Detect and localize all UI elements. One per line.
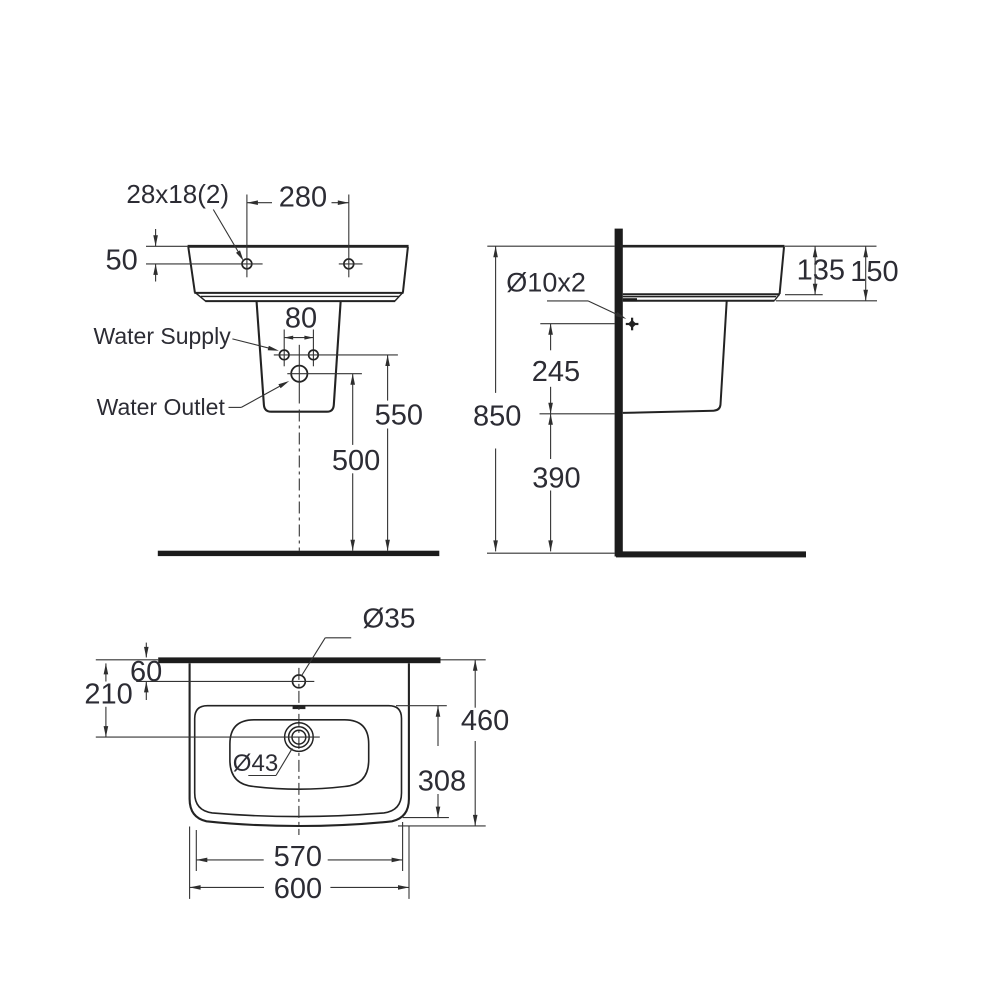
dimension 280 line right segment with arrow [332, 202, 349, 204]
dimension 600 right extension line [408, 827, 410, 899]
dimension 135 line with arrows [814, 246, 816, 295]
water outlet horizontal line / 500 extension [287, 373, 362, 375]
front view: rim lip left connector [196, 293, 206, 301]
dimension 135 bottom extension line [785, 294, 823, 296]
svg-text:570: 570 [274, 841, 322, 873]
dimension 60 upper arrow [145, 643, 147, 658]
plan view: bowl outline [230, 720, 369, 789]
plan view: vertical centerline dash-dot [298, 668, 300, 835]
dimension 135/150 top extension line [784, 245, 876, 247]
dimension 500 line upper segment with arrow [352, 374, 354, 445]
side view: basin top edge [620, 245, 784, 248]
svg-text:245: 245 [532, 356, 580, 388]
dimension 80 left extension line [283, 330, 285, 367]
dimension 280 left extension line [246, 195, 248, 278]
label Ø35 leader line [325, 637, 351, 639]
dimension 500 line lower segment with arrow [352, 473, 354, 550]
front view: vertical centerline dash-dot to floor [298, 410, 300, 551]
front view: basin top edge [188, 245, 409, 248]
front view: rim lip upper line [201, 295, 399, 297]
label Ø43 leader line [248, 775, 276, 777]
svg-text:460: 460 [461, 705, 509, 737]
dimension 280 line left segment with arrow [247, 202, 272, 204]
svg-text:210: 210 [84, 678, 132, 710]
side view: rim lip lower line [623, 300, 775, 302]
dimension 80 right extension line [312, 330, 314, 367]
svg-text:390: 390 [532, 463, 580, 495]
dimension 280 right extension line [348, 195, 350, 278]
front view: basin left side [188, 247, 195, 293]
dimension 570 line left segment with arrow [196, 859, 263, 861]
dimension 60 lower arrow [145, 681, 147, 700]
plan view: faucet hole horizontal centerline / 60 extension [136, 680, 314, 682]
side view: wall thick bar [615, 229, 623, 557]
dimension 210 line lower segment with arrow [105, 707, 107, 737]
dimension 550 line upper segment with arrow [387, 355, 389, 401]
water outlet hole [291, 366, 307, 382]
water supply hole left [279, 350, 289, 360]
dimension 308 line upper segment with arrow [437, 706, 439, 746]
front view: semi-pedestal outline [257, 302, 341, 412]
dimension 570 line right segment with arrow [328, 859, 403, 861]
dimension 550 line lower segment with arrow [387, 429, 389, 551]
svg-text:500: 500 [332, 445, 380, 477]
label Ø10x2 leader line [547, 300, 588, 302]
front view: rim lip right connector [395, 293, 402, 301]
dimension 850 top extension line [487, 245, 614, 247]
dimension 570 left extension line [195, 830, 197, 871]
front view: basin bottom edge [194, 292, 403, 294]
front view: vertical centerline solid part [298, 345, 300, 404]
front view: right faucet hole [344, 259, 354, 269]
water supply holes horizontal line / 550 extension [274, 354, 398, 356]
plan view: drain outer circle [285, 723, 314, 752]
dimension 460 line lower segment with arrow [474, 741, 476, 826]
dimension 460 line upper segment with arrow [474, 660, 476, 708]
dimension 308 line lower segment with arrow [437, 794, 439, 818]
svg-text:308: 308 [418, 766, 466, 798]
svg-text:600: 600 [274, 873, 322, 905]
dimension 245 line upper segment with arrow [550, 324, 552, 351]
plan view: drain horizontal centerline / 210 extension [96, 736, 320, 738]
dimension 50 upper extension line [146, 245, 189, 247]
svg-text:Ø43: Ø43 [233, 750, 278, 777]
side view: rim lip dark segment at wall [623, 298, 637, 301]
dimension 308 bottom extension line [403, 817, 449, 819]
dimension 600 line right segment with arrow [330, 886, 409, 888]
label Water Supply leader line [232, 339, 275, 350]
plan view: wall thin line left [96, 659, 158, 661]
pedestal bottom extension line [540, 413, 615, 415]
plan view: faucet hole circle [293, 675, 306, 688]
front view: rim lip lower line [205, 300, 395, 302]
svg-text:850: 850 [473, 401, 521, 433]
dimension 600 left extension line [189, 827, 191, 899]
front view: left faucet hole [242, 259, 252, 269]
dimension 600 line left segment with arrow [190, 886, 264, 888]
plan view: wall thin line right / 460 top extension [441, 659, 486, 661]
dimension 850 line upper segment with arrow [495, 246, 497, 393]
plan view: overflow slot mark [293, 707, 306, 710]
plan view: basin inner rim outline [195, 706, 402, 817]
plan view: drain middle circle [289, 727, 310, 748]
svg-text:28x18(2): 28x18(2) [126, 179, 229, 209]
svg-text:280: 280 [279, 182, 327, 214]
svg-text:135: 135 [797, 254, 845, 286]
dimension 50 lower arrow [155, 264, 157, 282]
plan view: drain inner circle [292, 730, 306, 744]
dimension 390 line upper segment with arrow [550, 414, 552, 459]
dimension 210 line upper segment with arrow [105, 663, 107, 681]
side view: floor thick bar [616, 551, 806, 557]
side view: semi-pedestal profile [623, 301, 727, 413]
svg-text:Water Outlet: Water Outlet [97, 394, 226, 420]
side view: basin bottom edge [623, 293, 780, 295]
svg-text:80: 80 [285, 303, 317, 335]
dimension 80 line with arrows [284, 337, 313, 339]
dimension 570 right extension line [402, 822, 404, 871]
plan view: basin outer outline [190, 663, 409, 826]
svg-text:Water Supply: Water Supply [94, 323, 232, 349]
svg-text:Ø10x2: Ø10x2 [506, 268, 586, 298]
water supply hole right [309, 350, 319, 360]
dimension 50 lower extension line through left hole [146, 263, 263, 265]
front view: basin right side [403, 247, 408, 293]
dimension 50 upper arrow [155, 229, 157, 246]
wall fixing hole cross mark [626, 323, 639, 325]
dimension 850 line lower segment with arrow [495, 449, 497, 552]
svg-text:50: 50 [106, 244, 138, 276]
dimension 308 top extension line [396, 705, 447, 707]
front view: right faucet hole cross line [339, 263, 363, 265]
plan view: wall thick bar [158, 657, 440, 663]
side view: basin right edge [780, 247, 784, 294]
front view: floor line [158, 551, 440, 556]
svg-text:550: 550 [375, 400, 423, 432]
side view: rim lip upper line [623, 296, 776, 298]
dimension 245 line lower segment with arrow [550, 387, 552, 414]
dimension 245 extension line at fixing hole level [540, 323, 614, 325]
svg-text:60: 60 [130, 656, 162, 688]
dimension 460 bottom extension line [398, 825, 486, 827]
dimension 150 bottom extension line [776, 300, 877, 302]
side view: rim lip right connector [774, 294, 779, 300]
svg-text:150: 150 [850, 256, 898, 288]
label Water Outlet leader line [229, 406, 242, 408]
side view: floor thin extension left of wall [487, 552, 615, 554]
label 28x18(2) leader line [213, 210, 241, 257]
dimension 150 line with arrows [865, 246, 867, 301]
dimension 390 line lower segment with arrow [550, 491, 552, 552]
svg-text:Ø35: Ø35 [363, 603, 416, 634]
